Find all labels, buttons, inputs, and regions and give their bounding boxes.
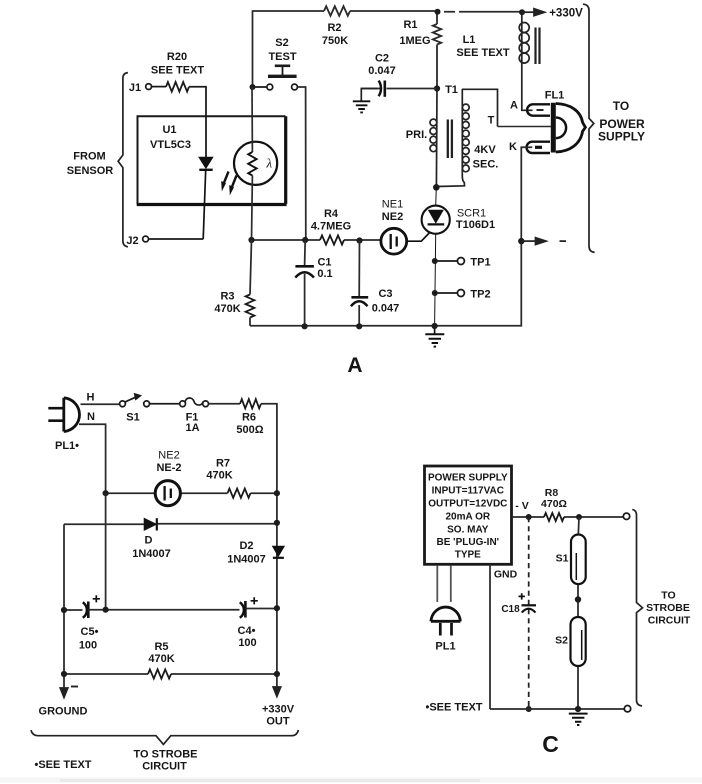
switch S2 <box>253 66 306 240</box>
svg-text:TP1: TP1 <box>470 257 490 269</box>
svg-text:C18: C18 <box>501 604 520 615</box>
capacitor C1 <box>295 240 314 326</box>
svg-text:R6: R6 <box>242 412 256 424</box>
photocell (inside U1) <box>234 87 277 240</box>
svg-text:SO. MAY: SO. MAY <box>447 525 489 536</box>
svg-text:H: H <box>87 392 95 404</box>
wire: top +330V rail <box>253 11 523 87</box>
wire: box leads to plug <box>437 566 451 603</box>
svg-text:0.1: 0.1 <box>317 268 332 280</box>
svg-text:R5: R5 <box>154 641 168 653</box>
bracket: to power supply <box>583 4 595 252</box>
wire: H line <box>81 403 120 405</box>
node: dot NE2 row right <box>274 490 280 496</box>
svg-text:R2: R2 <box>327 22 341 34</box>
diode D <box>144 518 157 530</box>
svg-text:470K: 470K <box>214 303 240 315</box>
resistor R20 <box>166 82 189 92</box>
resistor R8 <box>544 513 564 521</box>
svg-text:100: 100 <box>79 640 97 652</box>
svg-text:D: D <box>145 535 153 547</box>
svg-text:0.047: 0.047 <box>368 65 396 77</box>
wire: trigger T to FL1 <box>498 126 552 128</box>
svg-text:•SEE TEXT: •SEE TEXT <box>425 702 482 714</box>
svg-text:J2: J2 <box>126 235 138 247</box>
resistor R2 <box>324 6 350 16</box>
LED (inside U1) <box>199 116 237 239</box>
ground (C2) <box>353 101 371 112</box>
svg-text:T: T <box>488 115 495 127</box>
wire: T1 secondary top to trigger <box>462 89 498 126</box>
node: dots R5 row <box>61 671 67 677</box>
svg-text:C2: C2 <box>375 53 389 65</box>
terminal circle top (C) <box>623 513 629 519</box>
svg-text:C1: C1 <box>317 257 331 269</box>
wire: R8 row <box>512 516 623 518</box>
svg-text:S2: S2 <box>555 635 568 647</box>
svg-text:L1: L1 <box>463 34 476 46</box>
wire: R5 row <box>64 673 277 675</box>
svg-text:NE2: NE2 <box>158 450 179 462</box>
svg-text:TEST: TEST <box>268 51 296 63</box>
fuse F1 <box>180 398 240 407</box>
svg-text:CIRCUIT: CIRCUIT <box>142 761 187 773</box>
svg-text:U1: U1 <box>162 124 176 136</box>
wire: left column + N column lower <box>64 493 106 674</box>
strobe lamp S1 (C) <box>571 535 586 585</box>
svg-text:PL1: PL1 <box>435 641 455 653</box>
svg-text:D2: D2 <box>239 540 253 552</box>
svg-text:R7: R7 <box>216 458 230 470</box>
node: dot between lamps <box>575 596 581 602</box>
scan artifact band <box>0 778 702 783</box>
svg-text:- V: - V <box>515 500 528 512</box>
wire: N line <box>79 424 106 493</box>
switch S1 (section B) <box>120 393 180 406</box>
wire: bottom rail (C) <box>490 708 625 710</box>
connector J2 <box>143 236 204 242</box>
svg-text:S2: S2 <box>275 37 288 49</box>
capacitor C5 <box>64 595 106 618</box>
svg-text:1A: 1A <box>185 422 199 434</box>
svg-text:T106D1: T106D1 <box>456 219 495 231</box>
svg-text:J1: J1 <box>129 82 141 94</box>
wire: +330V OUT arrow <box>273 674 281 697</box>
svg-text:N: N <box>87 411 95 423</box>
wire: gate node row <box>252 239 381 241</box>
svg-text:4KV: 4KV <box>474 144 496 156</box>
node: junction dots on gate row <box>248 237 254 243</box>
svg-text:SEE TEXT: SEE TEXT <box>456 47 509 59</box>
inductor L1 coil <box>519 12 539 110</box>
svg-text:470Ω: 470Ω <box>541 498 567 510</box>
svg-text:INPUT=117VAC: INPUT=117VAC <box>432 485 504 496</box>
svg-text:20mA OR: 20mA OR <box>445 512 490 523</box>
capacitor C3 <box>351 241 368 327</box>
optocoupler U1 box <box>138 116 286 204</box>
dashed line (C18 branch) <box>528 517 530 709</box>
brace FROM SENSOR <box>118 73 128 247</box>
svg-text:NE1: NE1 <box>382 199 403 211</box>
svg-text:OUT: OUT <box>266 716 290 728</box>
diode D2 <box>273 546 285 558</box>
test point TP1 <box>435 258 465 265</box>
svg-text:470K: 470K <box>148 653 174 665</box>
svg-text:1MEG: 1MEG <box>399 35 430 47</box>
svg-text:SENSOR: SENSOR <box>67 165 114 177</box>
svg-text:A: A <box>510 100 518 112</box>
node: dots on bottom rail <box>302 323 308 329</box>
resistor R3 <box>246 240 255 326</box>
svg-text:C: C <box>542 731 559 757</box>
svg-text:T1: T1 <box>445 84 458 96</box>
svg-text:R1: R1 <box>403 19 417 31</box>
svg-text:PL1•: PL1• <box>55 440 79 452</box>
svg-text:R3: R3 <box>220 291 234 303</box>
svg-text:FL1: FL1 <box>545 90 565 102</box>
wire: section A bottom rail <box>250 241 521 326</box>
svg-text:500Ω: 500Ω <box>236 424 263 436</box>
resistor R4 <box>320 235 344 244</box>
svg-text:R4: R4 <box>324 208 339 220</box>
transformer T1 core <box>448 120 452 159</box>
svg-text:4.7MEG: 4.7MEG <box>311 221 351 233</box>
inductor L1 core bars <box>536 28 540 65</box>
svg-text:CIRCUIT: CIRCUIT <box>648 615 691 627</box>
svg-text:K: K <box>509 141 517 153</box>
svg-text:1N4007: 1N4007 <box>227 554 266 566</box>
wire: right column section B <box>261 404 277 674</box>
svg-text:POWER SUPPLY: POWER SUPPLY <box>428 473 508 484</box>
plug PL1 (section B) <box>48 398 79 432</box>
svg-text:SEE TEXT: SEE TEXT <box>151 65 204 77</box>
power supply box <box>425 466 512 564</box>
svg-text:GND: GND <box>494 569 518 581</box>
svg-text:750K: 750K <box>322 35 348 47</box>
capacitor C4 <box>240 597 277 618</box>
svg-text:TP2: TP2 <box>470 289 490 301</box>
node: dot dashed bottom <box>526 706 532 712</box>
svg-text:NE-2: NE-2 <box>156 462 181 474</box>
plug PL1 (section C) <box>431 607 461 635</box>
svg-text:TO: TO <box>661 590 675 602</box>
svg-text:TO: TO <box>613 99 629 113</box>
svg-text:BE 'PLUG-IN': BE 'PLUG-IN' <box>437 537 500 548</box>
svg-text:FROM: FROM <box>73 151 105 163</box>
svg-text:C5•: C5• <box>81 626 99 638</box>
svg-text:+330V: +330V <box>262 704 295 716</box>
brace TO STROBE CIRCUIT (B) <box>31 730 298 745</box>
node: junction dot T1 bottom <box>433 184 440 191</box>
node: junction dot K column <box>518 238 524 244</box>
svg-text:NE2: NE2 <box>382 211 403 223</box>
terminal circle bottom (C) <box>624 706 630 712</box>
resistor R7 <box>228 489 251 498</box>
node: dot R8 row left <box>526 514 532 520</box>
svg-text:STROBE: STROBE <box>646 602 690 614</box>
capacitor C18 <box>519 593 537 612</box>
wire: NE2 row <box>106 492 277 494</box>
svg-text:λ: λ <box>266 156 273 171</box>
wire: FL1 A lead <box>522 64 533 110</box>
svg-text:+330V: +330V <box>549 8 583 20</box>
svg-text:SEC.: SEC. <box>473 159 499 171</box>
svg-text:•SEE TEXT: •SEE TEXT <box>34 759 91 771</box>
node: junction dot S2 left <box>250 84 256 90</box>
diode D row <box>64 523 277 526</box>
node: dots C5/C4 row <box>61 607 67 613</box>
node: dot R8 row right <box>576 514 582 520</box>
wire: GROUND arrow <box>60 674 78 698</box>
svg-text:SUPPLY: SUPPLY <box>598 130 645 144</box>
svg-text:GROUND: GROUND <box>39 706 88 718</box>
node: dot N/NE2 <box>103 490 109 496</box>
svg-text:0.047: 0.047 <box>372 303 400 315</box>
svg-text:470K: 470K <box>206 470 232 482</box>
test point TP2 <box>435 290 465 297</box>
svg-text:1N4007: 1N4007 <box>132 548 171 560</box>
wire: FL1 K lead down to rail <box>521 147 532 241</box>
svg-text:100: 100 <box>238 637 256 649</box>
resistor R5 <box>148 669 171 678</box>
ground (section C) <box>569 714 588 725</box>
wire: +330V arrow <box>522 9 545 16</box>
svg-text:SCR1: SCR1 <box>457 208 486 220</box>
svg-text:PRI.: PRI. <box>406 129 427 141</box>
neon lamp NE2 (section B) <box>155 481 180 506</box>
node: junction dot top rail at L1 <box>519 9 525 15</box>
node: junction dot T1 top <box>434 85 440 91</box>
resistor R6 <box>240 399 261 408</box>
ground (section A) <box>425 326 444 347</box>
svg-text:C3: C3 <box>378 288 392 300</box>
capacitor C2 <box>353 81 437 113</box>
transformer T1 secondary <box>461 89 463 176</box>
wire: GND lead <box>489 565 491 710</box>
node: dot D row right <box>274 520 280 526</box>
svg-text:VTL5C3: VTL5C3 <box>150 139 191 151</box>
bracket TO STROBE CIRCUIT (C) <box>632 509 642 706</box>
node: junction dot top rail at R1 <box>435 9 441 15</box>
svg-text:S1: S1 <box>126 412 139 424</box>
svg-text:C4•: C4• <box>238 625 256 637</box>
svg-text:OUTPUT=12VDC: OUTPUT=12VDC <box>428 499 507 510</box>
wire: arrow to power supply <box>521 238 566 245</box>
transformer T1 primary <box>430 89 498 188</box>
wire: lamp column <box>578 517 579 709</box>
LED light arrows <box>223 172 229 187</box>
resistor R1 <box>433 12 441 89</box>
svg-text:TO STROBE: TO STROBE <box>134 749 198 761</box>
strobe lamp S2 (C) <box>571 617 586 666</box>
svg-text:S1: S1 <box>556 553 569 565</box>
neon lamp NE2 (trigger) <box>381 228 407 254</box>
svg-text:TYPE: TYPE <box>455 550 481 561</box>
flash lamp FL1 <box>527 103 586 153</box>
connector J1 <box>146 82 206 116</box>
svg-text:A: A <box>347 354 362 377</box>
wire: C5-C4 row <box>106 609 240 611</box>
svg-text:R20: R20 <box>167 51 187 63</box>
SCR1 <box>407 187 450 326</box>
